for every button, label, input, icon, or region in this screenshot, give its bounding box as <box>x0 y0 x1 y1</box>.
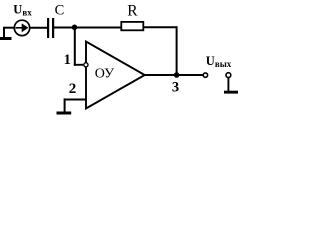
svg-text:Uвх: Uвх <box>13 2 32 17</box>
svg-text:ОУ: ОУ <box>95 67 114 82</box>
svg-text:C: C <box>55 3 65 19</box>
svg-text:3: 3 <box>172 80 179 96</box>
svg-text:Uвых: Uвых <box>206 54 232 69</box>
svg-text:1: 1 <box>64 52 71 68</box>
svg-text:R: R <box>127 3 138 20</box>
svg-text:2: 2 <box>69 81 77 97</box>
